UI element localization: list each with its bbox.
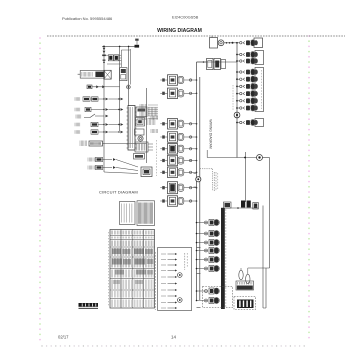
svg-text:WIRING DIAGRAM: WIRING DIAGRAM xyxy=(157,28,202,34)
svg-text:Publication No. 5995554486: Publication No. 5995554486 xyxy=(62,16,113,21)
svg-text:14: 14 xyxy=(171,334,177,339)
svg-text:02/17: 02/17 xyxy=(58,334,69,339)
svg-text:WIRING DIAGRAM: WIRING DIAGRAM xyxy=(209,119,213,149)
svg-text:EI24C00GS5B: EI24C00GS5B xyxy=(172,15,199,20)
svg-text:CIRCUIT DIAGRAM: CIRCUIT DIAGRAM xyxy=(99,190,138,195)
